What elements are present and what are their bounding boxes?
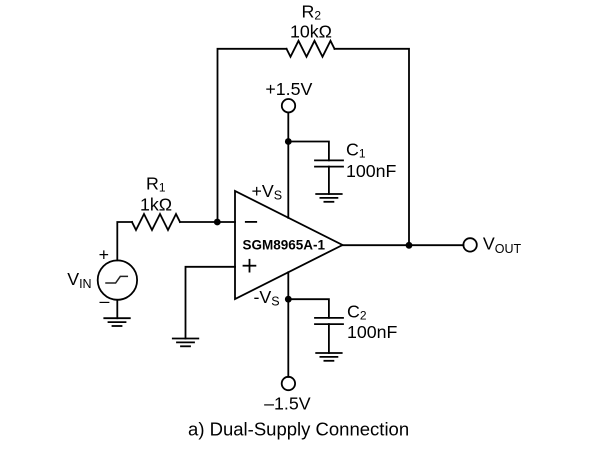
node junction dot +VS / C1 xyxy=(285,138,292,145)
terminal -1.5V xyxy=(282,377,295,390)
terminal +1.5V xyxy=(282,99,295,112)
op-amp non-inverting marker xyxy=(244,260,256,272)
svg-text:R1: R1 xyxy=(146,174,166,195)
wire from VIN to R1 xyxy=(117,222,132,260)
svg-text:–1.5V: –1.5V xyxy=(264,394,311,414)
resistor R1 xyxy=(132,214,180,230)
svg-text:VIN: VIN xyxy=(67,269,91,291)
wire C1 to ground xyxy=(328,167,330,194)
svg-text:-VS: -VS xyxy=(254,287,280,309)
wire to capacitor C2 xyxy=(288,299,329,318)
svg-text:C1: C1 xyxy=(346,140,366,161)
capacitor C1 xyxy=(315,160,343,166)
op-amp U1 SGM8965A-1 xyxy=(235,191,343,299)
svg-text:100nF: 100nF xyxy=(347,322,398,342)
svg-text:R2: R2 xyxy=(302,2,322,23)
wire C2 to ground xyxy=(328,324,330,353)
svg-text:1kΩ: 1kΩ xyxy=(140,195,172,215)
node junction dot output xyxy=(406,242,413,249)
ground non-inverting input xyxy=(173,339,199,347)
terminal VOUT xyxy=(463,238,476,251)
node junction dot -VS / C2 xyxy=(285,296,292,303)
svg-text:+VS: +VS xyxy=(252,181,283,203)
VIN waveform symbol xyxy=(106,276,127,283)
capacitor C2 xyxy=(315,318,343,324)
resistor R2 xyxy=(287,41,335,57)
ground under C2 xyxy=(316,353,342,361)
svg-text:a) Dual-Supply Connection: a) Dual-Supply Connection xyxy=(188,418,409,439)
wire top feedback left segment xyxy=(218,49,287,222)
svg-text:C2: C2 xyxy=(347,302,367,323)
wire -VS supply xyxy=(287,272,289,377)
svg-text:VOUT: VOUT xyxy=(483,233,522,256)
wire to capacitor C1 xyxy=(288,142,329,161)
svg-text:+1.5V: +1.5V xyxy=(265,79,312,99)
ground under C1 xyxy=(316,194,342,202)
svg-text:100nF: 100nF xyxy=(346,161,397,181)
wire output xyxy=(343,244,464,246)
wire VIN to ground xyxy=(116,300,118,318)
wire inverting input from R1 to op-amp xyxy=(180,221,235,223)
svg-text:10kΩ: 10kΩ xyxy=(290,22,332,42)
wire +VS supply xyxy=(287,112,289,217)
source VIN xyxy=(98,260,137,299)
wire top feedback right segment xyxy=(335,49,410,245)
svg-text:–: – xyxy=(99,291,109,311)
ground under VIN xyxy=(104,318,130,326)
svg-text:+: + xyxy=(99,245,109,265)
svg-text:SGM8965A-1: SGM8965A-1 xyxy=(243,237,326,252)
wire non-inverting input xyxy=(186,267,236,339)
node junction dot inverting input xyxy=(214,219,221,226)
op-amp inverting marker xyxy=(246,221,256,223)
